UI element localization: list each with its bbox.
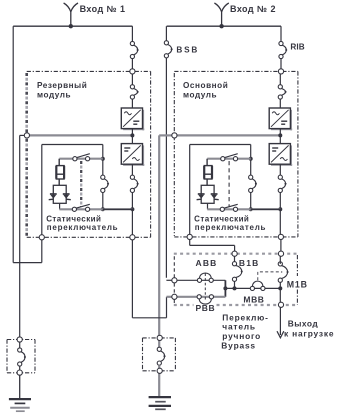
svg-text:В1В: В1В — [239, 258, 260, 268]
svg-text:модуль: модуль — [183, 91, 217, 100]
svg-text:М1В: М1В — [287, 279, 308, 289]
svg-text:RIB: RIB — [290, 43, 304, 52]
svg-text:Вход № 2: Вход № 2 — [230, 4, 276, 14]
svg-text:Основной: Основной — [183, 81, 228, 90]
svg-text:к нагрузке: к нагрузке — [284, 329, 334, 339]
svg-text:переключатель: переключатель — [195, 223, 267, 232]
svg-text:Вход № 1: Вход № 1 — [80, 4, 126, 14]
svg-text:МВВ: МВВ — [243, 295, 264, 305]
svg-text:переключатель: переключатель — [47, 223, 119, 232]
svg-text:BSB: BSB — [176, 45, 199, 54]
svg-text:Bypass: Bypass — [221, 341, 256, 351]
svg-text:Выход: Выход — [288, 318, 319, 328]
svg-text:АВВ: АВВ — [196, 258, 218, 268]
svg-text:Резервный: Резервный — [37, 81, 87, 90]
svg-text:модуль: модуль — [37, 91, 71, 100]
svg-text:РВВ: РВВ — [196, 303, 216, 313]
